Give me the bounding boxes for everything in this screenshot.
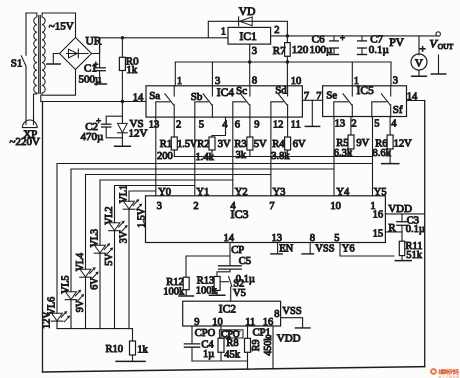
svg-text:45k: 45k [224,349,241,360]
svg-text:R7: R7 [273,45,286,57]
wire net Y1 IC4 pin5 to IC3 pin2 [194,117,196,196]
svg-text:OUT: OUT [438,42,454,51]
wire output rail to Vout terminal [287,35,436,37]
svg-text:9: 9 [194,317,199,328]
diode VD [208,21,287,37]
wire net Y3 IC4 pin12 to IC3 pin7 [270,117,272,196]
svg-text:R: R [388,222,396,234]
svg-text:V: V [415,58,423,70]
svg-text:S1: S1 [11,57,23,69]
wire bus to IC5 pin3 [390,62,392,86]
svg-text:10: 10 [330,201,341,212]
svg-text:CPO: CPO [195,328,216,339]
svg-text:VL4: VL4 [75,253,86,271]
resistor R11 51k [399,241,404,255]
terminal +Vout [436,32,440,36]
wire net VL1 to Y line [129,191,156,201]
svg-text:Y0: Y0 [158,187,171,198]
wire IC3 pin14 CP net [229,243,231,266]
switch S2 [221,281,228,283]
decoder IC3 box [146,196,386,243]
svg-text:3: 3 [215,76,220,87]
svg-text:R4: R4 [272,139,285,150]
ground under R13 [209,294,224,296]
svg-text:VSS: VSS [315,243,334,254]
svg-text:EN: EN [279,243,293,254]
frame wire right side VDD rail [424,101,426,367]
ground under R11 [395,260,411,262]
capacitor C1 500u [99,38,101,68]
analog switch IC4 box [146,86,302,117]
wire net VL5 to Y line [71,169,334,292]
svg-text:5V: 5V [104,253,115,266]
svg-text:Y4: Y4 [336,187,350,198]
switch Sc in IC4 [249,86,251,96]
capacitor C7 0.1u [361,36,363,41]
resistor R0 1k [121,36,124,39]
resistor R8 45k [220,326,222,338]
svg-text:CP: CP [231,245,244,256]
wire oscillator RC common to frame [192,360,248,362]
svg-text:3k: 3k [236,150,247,161]
svg-text:VDD: VDD [277,332,301,344]
svg-text:14: 14 [133,92,144,103]
transformer T primary winding [26,13,37,93]
svg-text:~220V: ~220V [10,136,40,148]
svg-text:IC5: IC5 [357,85,375,97]
svg-text:R9: R9 [251,340,262,352]
svg-text:Sd: Sd [275,85,287,97]
svg-text:6.3k: 6.3k [334,148,353,159]
svg-text:PV: PV [389,37,404,49]
resistor R6 8.6k [389,117,391,136]
wire net Y2 IC4 pin6 to IC3 pin4 [232,117,234,196]
svg-text:9V: 9V [356,138,369,149]
label CPO-bar boxed pin10 [219,330,243,338]
svg-text:R1: R1 [160,139,172,150]
resistor R3 3k [249,117,251,137]
svg-text:VL2: VL2 [104,206,115,224]
ground under R6 [382,163,399,165]
svg-text:VL3: VL3 [89,229,100,247]
wire IC3 pin5 Y6 [340,243,394,257]
svg-text:IC2: IC2 [219,304,237,316]
wire bus to IC4 pin1 [174,62,176,86]
svg-text:8: 8 [252,75,257,86]
capacitor C6 100u [333,36,335,41]
svg-text:100µ: 100µ [310,44,333,56]
svg-text:12V: 12V [41,311,52,329]
svg-text:6: 6 [235,120,240,131]
resistor R10 1k [132,329,134,341]
wire net VL3 to Y line [100,180,233,245]
svg-text:1.4k: 1.4k [196,152,215,163]
svg-text:Y3: Y3 [273,187,286,198]
svg-text:C5: C5 [239,256,251,267]
svg-text:7: 7 [269,201,274,212]
svg-text:15: 15 [373,229,384,240]
ground at pin 7 [311,100,313,126]
plug XP ~220V [22,120,37,128]
switch Sa in IC4 [173,86,175,96]
svg-text:1: 1 [221,27,226,38]
svg-text:12V: 12V [394,139,413,150]
timer IC2 box [183,301,281,326]
svg-text:16: 16 [263,317,274,328]
LED VL3 [95,245,106,253]
svg-text:0.1µ: 0.1µ [406,224,425,235]
wire XP second prong to transformer primary [34,93,37,120]
svg-text:10: 10 [291,76,302,87]
svg-text:2: 2 [193,201,198,212]
svg-text:IC4: IC4 [217,87,235,99]
svg-text:VSS: VSS [282,306,301,317]
svg-text:3: 3 [157,201,162,212]
ground at bridge left vertex [53,54,59,64]
svg-text:1µ: 1µ [203,349,214,360]
wire UR output rail to IC1 [92,38,229,54]
transformer T secondary winding [42,17,45,93]
svg-text:3V: 3V [119,230,130,243]
svg-text:R10: R10 [106,344,124,355]
wire IC3 pin15 R [385,231,402,233]
pin 2 label IC1 and wire [271,35,288,37]
switch S1 [25,13,27,55]
svg-text:R8: R8 [226,338,238,349]
svg-text:2: 2 [176,120,181,131]
wire bus to IC5 pin1 [351,62,353,86]
svg-text:3V: 3V [218,139,231,150]
LED VL6 [52,313,63,321]
svg-text:电子元器件网: 电子元器件网 [438,374,459,378]
wire divider common rail to Y5 [174,156,372,158]
switch Sf in IC5 [390,86,392,96]
svg-text:500µ: 500µ [79,73,102,85]
resistor R13 100k [217,269,230,276]
wire V+ node line to IC4 pin14 [121,100,124,103]
bridge rectifier UR inner diode [67,53,89,55]
svg-text:Y1: Y1 [196,187,209,198]
ground under VS [115,145,131,147]
wire bus to IC4 pin3 [211,62,213,86]
capacitor C3 0.1u [401,226,403,232]
svg-text:IC1: IC1 [240,31,258,43]
svg-text:R2: R2 [197,139,209,150]
wire IC3 pin8 VSS to ground [309,243,311,254]
svg-text:5: 5 [374,119,379,130]
LED VL4 [80,269,91,277]
svg-text:Sc: Sc [236,85,247,97]
svg-text:7: 7 [316,91,321,102]
ground under R12 [179,295,193,297]
LED VL2 [109,223,120,231]
resistor R2 1.4k [212,117,226,137]
voltmeter PV circle V [418,36,420,55]
svg-text:VL5: VL5 [60,275,71,293]
resistor R7 120 [286,36,288,43]
wire net VL6 to Y line [57,164,373,314]
resistor R4 3.8k [287,117,289,137]
svg-text:11: 11 [291,120,301,131]
svg-text:Sb: Sb [191,91,203,103]
svg-text:6V: 6V [293,139,306,150]
svg-text:R3: R3 [234,139,246,150]
svg-text:51k: 51k [406,250,423,261]
LED VL5 [66,292,77,300]
svg-text:12V: 12V [129,128,148,140]
transformer core [38,16,40,94]
svg-text:VDD: VDD [388,203,412,215]
resistor R1 200 [173,117,175,137]
svg-text:Sa: Sa [149,90,160,102]
svg-text:9: 9 [254,120,259,131]
frame wire bottom V+ rail [43,367,425,372]
svg-text:3: 3 [393,75,398,86]
wire IC3 pin16 VDD to rail [385,213,424,215]
svg-text:2: 2 [351,119,356,130]
switch Sd in IC4 [287,86,289,96]
wire secondary bottom to bridge bottom [42,70,75,96]
frame wire left side V+ rail [42,102,44,373]
svg-text:VL1: VL1 [118,185,129,203]
svg-text:Se: Se [326,90,337,102]
wire IC4 pin7 to IC5 pin7 [302,99,322,101]
LED VL1 [124,201,135,209]
wire IC2 pin16 VDD to frame [272,326,274,369]
svg-text:120: 120 [292,44,309,56]
svg-text:13: 13 [149,120,160,131]
zener diode VS 12V [121,102,123,124]
analog switch IC5 box [323,86,407,117]
svg-text:5: 5 [199,120,204,131]
svg-text:14: 14 [224,233,235,244]
wire ADJ bus over IC4 IC5 [175,61,391,63]
bridge rectifier UR diamond [60,38,92,70]
svg-text:7: 7 [304,91,309,102]
wire LED cathode bus [57,328,133,330]
svg-text:1k: 1k [137,345,148,356]
svg-text:5V: 5V [254,139,267,150]
svg-text:1: 1 [177,76,182,87]
svg-text:14: 14 [407,92,418,103]
svg-text:Y2: Y2 [235,187,248,198]
switch Se in IC5 [351,86,353,96]
svg-text:0.1µ: 0.1µ [369,44,389,56]
svg-text:5: 5 [334,233,339,244]
resistor R9 450k [247,326,249,338]
capacitor C4 1u [191,326,193,344]
regulator IC1 [228,27,271,44]
svg-text:8: 8 [274,309,279,320]
svg-text:450k: 450k [263,336,274,356]
svg-text:13: 13 [272,233,283,244]
svg-text:12: 12 [273,120,284,131]
svg-text:13: 13 [335,119,346,130]
pin 3 label IC1 and wire to bus [249,44,251,86]
svg-text:~15V: ~15V [49,21,74,33]
wire net Y4 IC5 pin13 to IC3 pin10 [333,117,335,196]
svg-text:Y6: Y6 [342,243,355,254]
svg-text:470µ: 470µ [81,131,104,143]
wire secondary top to bridge top [42,13,75,38]
svg-text:4: 4 [230,201,236,212]
svg-text:2: 2 [274,25,279,36]
svg-text:16: 16 [373,210,384,221]
svg-text:200: 200 [157,151,173,162]
svg-text:+: + [340,33,345,43]
wire net VL2 to Y line [115,186,195,223]
wire net VL4 to Y line [86,175,271,270]
svg-text:3: 3 [252,46,257,57]
watermark logo [430,368,459,378]
svg-text:4: 4 [391,119,397,130]
ground under R10 [116,360,145,362]
IC5 pin 14 wire to VDD rail [407,100,425,102]
ground for Vout terminal [438,55,440,74]
svg-text:V5: V5 [233,288,246,299]
wire IC2 pin8 VSS to ground [281,318,303,328]
capacitor C5 0.1u [219,265,242,267]
svg-text:VD: VD [239,6,256,18]
svg-text:Y5: Y5 [374,187,387,198]
resistor R5 6.3k [350,117,352,136]
svg-text:1k: 1k [126,64,138,76]
svg-text:6V: 6V [90,277,101,290]
svg-text:9V: 9V [75,299,86,312]
wire IC3 pin13 EN to ground [277,243,279,254]
wire net Y0 IC4 pin13 to IC3 pin3 [155,117,157,196]
switch Sb in IC4 [211,86,213,96]
svg-text:8.6k: 8.6k [373,148,392,159]
svg-text:Sf: Sf [393,104,403,116]
svg-text:11: 11 [245,317,255,328]
wire net Y5 IC5 pin5 to IC3 pin1 [372,117,374,196]
resistor R12 100k [185,256,187,277]
capacitor C2 470u [106,116,122,124]
wire CP to R12 [186,255,230,257]
